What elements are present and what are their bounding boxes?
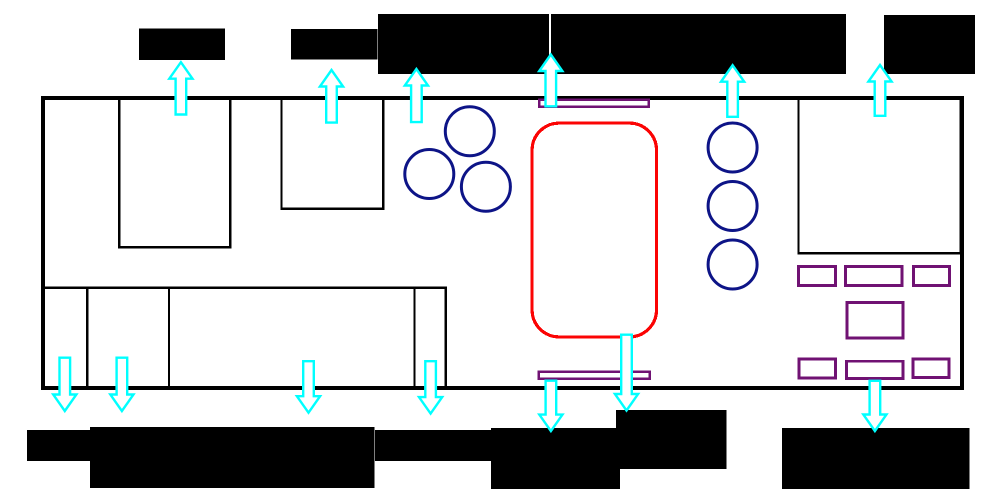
purple unit row2-a xyxy=(799,359,836,378)
purple unit row1-c xyxy=(913,266,949,285)
label box bottom-1 (redacted) xyxy=(27,430,90,461)
arrow down 5 xyxy=(539,381,562,431)
counter divider 1 xyxy=(86,288,88,388)
stool circle column-2 xyxy=(708,182,757,231)
stool circle column-1 xyxy=(708,123,757,172)
arrow down 4 xyxy=(419,361,442,413)
arrow down 6 xyxy=(615,335,638,411)
counter bottom-left xyxy=(43,288,446,388)
arrow up 2 xyxy=(320,70,343,123)
counter divider 2 xyxy=(168,288,170,388)
stool circle cluster-right xyxy=(461,162,510,211)
label box top-3 wide (redacted) xyxy=(378,14,846,74)
stool circle column-3 xyxy=(708,240,757,289)
white seam in top-3 label box xyxy=(549,14,551,74)
purple shelf bottom-mid xyxy=(539,372,650,379)
arrow down 7 xyxy=(863,381,886,431)
label box top-4 (redacted) xyxy=(884,15,975,74)
stool circle cluster-top xyxy=(445,107,494,156)
arrow up 4 xyxy=(539,55,562,107)
label box bottom-4 (redacted) xyxy=(491,428,620,489)
label box bottom-3 (redacted) xyxy=(375,430,491,461)
counter divider 3 xyxy=(413,288,415,388)
purple unit row2-b xyxy=(846,361,903,378)
purple unit row1-b xyxy=(845,266,902,285)
label box top-2 (redacted) xyxy=(291,29,378,60)
purple unit row2-c xyxy=(913,359,949,378)
label box top-1 (redacted) xyxy=(139,29,225,61)
label box bottom-5 (redacted) xyxy=(616,410,727,469)
arrow down 2 xyxy=(110,358,133,411)
arrow up 5 xyxy=(721,65,744,117)
purple shelf top xyxy=(539,100,648,107)
arrow up 6 xyxy=(868,65,891,116)
arrow down 1 xyxy=(53,358,76,411)
purple unit row1-a xyxy=(798,266,835,285)
arrow up 3 xyxy=(405,69,428,122)
label box bottom-2 (redacted) xyxy=(90,427,375,488)
trailer outline wall xyxy=(43,98,962,388)
arrow up 1 xyxy=(169,62,192,114)
room box left-tall xyxy=(119,98,230,248)
stool circle cluster-left xyxy=(405,150,454,199)
label box bottom-6 (redacted) xyxy=(782,428,970,489)
room box mid-top xyxy=(281,98,383,209)
room box top-right xyxy=(799,98,961,254)
arrow down 3 xyxy=(297,361,320,413)
purple unit middle xyxy=(847,303,903,339)
red island (rounded) xyxy=(532,123,656,337)
